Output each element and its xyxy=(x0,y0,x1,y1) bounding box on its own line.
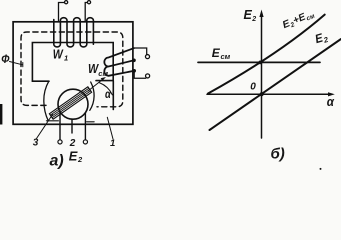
Ecm level horizontal line xyxy=(198,61,320,63)
junction dot at origin xyxy=(260,92,264,96)
terminal T1 of winding W1 xyxy=(65,1,68,4)
Wcm top lead xyxy=(134,48,147,54)
rotor lead 3 (left) xyxy=(59,113,61,140)
Wcm bottom lead xyxy=(134,71,146,78)
Wcm terminal lower xyxy=(146,74,150,78)
lead from T1 xyxy=(59,3,65,22)
flux path dashed loop (dashed rect of core, open at rotor cutout) xyxy=(21,32,123,107)
svg-text:W: W xyxy=(53,46,64,61)
svg-text:Ф: Ф xyxy=(1,52,10,66)
svg-text:б): б) xyxy=(271,146,285,163)
svg-text:E: E xyxy=(244,8,253,22)
svg-text:3: 3 xyxy=(33,137,39,148)
winding W1 turns on top limb xyxy=(54,18,94,47)
svg-text:см: см xyxy=(305,13,316,23)
junction dot top xyxy=(132,59,136,63)
pointer line from label 3 xyxy=(37,115,53,139)
lead from T2 xyxy=(85,3,87,22)
terminal T2 of winding W1 xyxy=(87,1,90,4)
rotor disc xyxy=(58,89,88,119)
svg-text:E: E xyxy=(69,148,78,163)
svg-text:1: 1 xyxy=(64,54,68,63)
pointer line from label F (flux) xyxy=(10,62,23,67)
pointer line from label 1 xyxy=(107,117,113,139)
svg-text:2: 2 xyxy=(251,16,256,23)
right pole face arc xyxy=(90,82,94,110)
svg-text:см: см xyxy=(98,69,108,78)
speck xyxy=(320,168,322,170)
svg-text:+E: +E xyxy=(292,12,308,27)
left pole face arc xyxy=(44,81,49,120)
right pole shoulder xyxy=(87,121,95,123)
vane axis line with arrow xyxy=(88,79,104,91)
svg-text:а): а) xyxy=(50,153,64,170)
graph vertical axis E2 xyxy=(261,15,263,138)
angle alpha arc xyxy=(100,83,113,95)
svg-text:см: см xyxy=(221,52,231,61)
rotor vane (hatched bar) xyxy=(49,87,91,119)
core outer rectangle xyxy=(13,22,133,125)
junction dot bottom xyxy=(132,69,136,73)
svg-text:E: E xyxy=(212,46,221,60)
rotor terminal 1 xyxy=(83,140,87,144)
scan artifact left edge xyxy=(0,104,2,125)
svg-text:α: α xyxy=(105,87,111,101)
core window edges (top, left, right) xyxy=(32,43,113,110)
core window bottom-left edge xyxy=(32,80,49,82)
svg-text:2: 2 xyxy=(77,155,83,164)
graph label E2 (lower line) xyxy=(313,29,330,47)
winding Wcm slanted turns on right limb xyxy=(104,48,134,76)
line E2+Ecm xyxy=(208,15,325,94)
svg-text:1: 1 xyxy=(110,138,115,149)
rotor lead 1 (right) xyxy=(84,111,86,140)
junction dot at Ecm crossing xyxy=(258,61,262,65)
graph horizontal axis alpha xyxy=(207,93,329,95)
line E2 xyxy=(210,39,341,130)
svg-text:0: 0 xyxy=(250,82,256,93)
Wcm terminal upper xyxy=(145,55,149,59)
graph label E2+Ecm (upper line) xyxy=(281,8,316,32)
rotor lead 2 (middle) xyxy=(71,118,73,133)
rotor terminal 3 xyxy=(58,140,62,144)
left pole shoulder xyxy=(47,120,59,122)
svg-text:α: α xyxy=(327,94,335,109)
